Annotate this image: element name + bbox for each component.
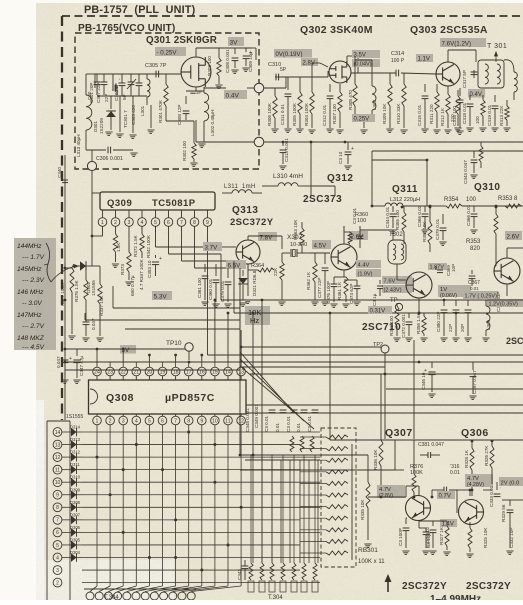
wire Q302 drain bbox=[347, 56, 396, 73]
wire pin8 route bbox=[195, 226, 241, 268]
capacitor C348 0.047 bbox=[56, 349, 69, 383]
Q306 transistor bbox=[459, 500, 484, 525]
wire v262 bbox=[254, 299, 263, 460]
capacitor C308 12P bbox=[177, 96, 189, 125]
IC Q308 top pin 14 bbox=[224, 367, 233, 376]
matrix junction dots bbox=[96, 431, 243, 572]
resistor R364 bbox=[248, 263, 274, 272]
wire v414 bbox=[413, 340, 415, 439]
connector pin 2 bbox=[53, 578, 62, 587]
bottom connector pin 5 bbox=[123, 592, 131, 600]
PLL unit dashed border top bbox=[62, 15, 523, 17]
inductor L311 bbox=[222, 190, 262, 193]
resistor R363 10K bbox=[293, 219, 304, 253]
IC Q308 bottom pin 12 bbox=[237, 416, 246, 425]
bottom connector pin 2 bbox=[95, 592, 103, 600]
IC Q308 top pin 22 bbox=[119, 367, 128, 376]
resistor R374 under pin2 bbox=[112, 226, 121, 267]
capacitor C308b bbox=[225, 48, 239, 73]
wire 2SC710 emitter bbox=[418, 298, 421, 314]
connector pin 5 bbox=[53, 541, 62, 550]
label 4KB 316 0.01 bbox=[450, 464, 460, 476]
capacitor C311 0.01 bbox=[280, 77, 292, 132]
ecap C309 10u bbox=[242, 48, 253, 72]
label 2SC372Y Q313 bbox=[230, 217, 274, 228]
wire corner x372 bbox=[371, 151, 374, 207]
bottom connector pin 11 bbox=[178, 592, 186, 600]
wire Q313 collector bbox=[248, 236, 282, 249]
voltage 6.5V bbox=[226, 260, 246, 270]
Q301 transistor bbox=[181, 57, 211, 87]
wire node1 to Q302 bbox=[264, 77, 286, 88]
wire tc col bbox=[120, 96, 151, 133]
voltage 2.6V right bbox=[505, 231, 522, 241]
capacitor C312 0.01 bbox=[322, 84, 334, 132]
capacitor C365 bbox=[487, 284, 523, 312]
wire v214 bbox=[214, 300, 216, 362]
capacitor C344 0.01 bbox=[385, 206, 397, 233]
voltage 7.6V(2.43V) bbox=[382, 276, 412, 294]
capacitor C305 7P bbox=[145, 63, 167, 77]
wire source to node bbox=[204, 87, 255, 89]
voltage 0.25V bbox=[352, 114, 375, 123]
label 2SC fragment bbox=[506, 336, 523, 346]
wire v253 bbox=[252, 312, 255, 460]
wire Q312 collector up bbox=[343, 226, 345, 244]
bus wire y313 bbox=[234, 261, 523, 313]
transformer T302 bbox=[360, 230, 406, 264]
voltage 2.6V a bbox=[349, 231, 368, 241]
ecap C353 10 bbox=[147, 255, 162, 278]
connector pin 11 bbox=[53, 465, 62, 474]
resistor R328 1K bbox=[464, 441, 474, 491]
IC Q309 pin 4 bbox=[138, 218, 147, 227]
wire R328 join bbox=[460, 490, 472, 496]
wire Q301 gate bbox=[180, 72, 181, 74]
capacitor C367 0.01 bbox=[468, 270, 480, 291]
resistor R337 10K bbox=[96, 266, 104, 341]
RB301 right bus bbox=[351, 444, 353, 560]
bottom resistor row bbox=[248, 455, 318, 592]
voltage 7.6V(1.2V) bbox=[440, 38, 486, 48]
label Q303 2SC535A bbox=[410, 24, 488, 36]
label L311 1mH bbox=[224, 184, 256, 190]
matrix column resistors bbox=[290, 436, 314, 452]
bottom connector pin 10 bbox=[169, 592, 177, 600]
resistor R356 1.5K bbox=[416, 311, 428, 341]
connector pin 12 bbox=[53, 453, 62, 462]
label Q301 2SK19GR bbox=[146, 35, 217, 46]
capacitor C343 bbox=[237, 560, 248, 580]
capacitor C344 0.047 bbox=[82, 318, 96, 341]
resistor R372 1.5K bbox=[133, 226, 144, 258]
wire out right bbox=[501, 500, 523, 522]
resistor R303 100 bbox=[207, 48, 221, 84]
resistor R335 10K bbox=[330, 455, 372, 547]
voltage 1.7V(0.25V) bbox=[463, 291, 498, 300]
bus wire y460 bbox=[245, 459, 320, 461]
capacitor C376 bbox=[317, 253, 329, 305]
IC Q308 bottom pin 9 bbox=[198, 416, 207, 425]
bus wire y362 bbox=[65, 361, 523, 363]
bus wire y370 bbox=[65, 369, 240, 371]
bottom connector pin 12 bbox=[187, 592, 195, 600]
TP test point bbox=[390, 298, 403, 311]
junction circle VCO bottom bbox=[87, 150, 96, 171]
label TP10 bbox=[166, 340, 182, 347]
label Q313 bbox=[232, 205, 258, 216]
wire Q313 base bbox=[222, 246, 236, 248]
wire Q303 collector bbox=[448, 50, 476, 62]
wire Q310 collector bbox=[507, 248, 523, 258]
inductor L301 bbox=[140, 74, 150, 116]
resistor R326 27K bbox=[484, 441, 494, 480]
IC Q308 top pin 15 bbox=[211, 367, 220, 376]
capacitor row matrix right bbox=[245, 408, 318, 432]
wire X307 out bbox=[310, 252, 330, 254]
bus wire y329 bbox=[125, 300, 240, 329]
IC Q308 bottom pin 2 bbox=[106, 416, 115, 425]
IC Q308 top pin 20 bbox=[145, 367, 154, 376]
resistor R311 220 bbox=[429, 84, 441, 133]
capacitor C378 bbox=[372, 280, 383, 306]
wire v175 bbox=[174, 354, 177, 362]
connector pin 13 bbox=[53, 440, 62, 449]
wire supply 3V bbox=[65, 348, 185, 350]
diag bus 1 bbox=[240, 352, 294, 413]
IC Q308 top pin 23 bbox=[106, 367, 115, 376]
label Q302 3SK40M bbox=[300, 24, 373, 36]
frequency table text bbox=[17, 243, 45, 351]
capacitor C307 22P bbox=[96, 74, 107, 103]
inductor L310 bbox=[262, 183, 312, 186]
transformer T301 bbox=[478, 52, 504, 88]
wire g2 bias bbox=[312, 63, 328, 67]
label Q307 bbox=[385, 427, 413, 439]
bus wire y389 bbox=[386, 388, 523, 390]
bus wire y455 bbox=[240, 347, 330, 455]
resistor R358 100 bbox=[389, 303, 401, 341]
label 2SC710 bbox=[362, 322, 401, 333]
voltage 0V(0.19V) bbox=[274, 49, 312, 58]
voltage 1.87V bbox=[428, 263, 447, 271]
bus wire y367 bbox=[240, 366, 385, 368]
node VCO out 1 bbox=[254, 83, 264, 93]
label 2SC372Y pair bbox=[402, 581, 511, 592]
voltage 2.8V bbox=[301, 58, 318, 67]
wire C310 to gate bbox=[281, 71, 328, 77]
IC Q308 label bbox=[106, 392, 215, 404]
bus wire y405 bbox=[246, 404, 523, 406]
connector box bbox=[47, 421, 70, 600]
wire v241 bbox=[240, 330, 242, 362]
ground R303 bbox=[215, 85, 222, 88]
wire gate rail Q301 bbox=[95, 74, 180, 88]
resistor R376 100K bbox=[395, 440, 423, 498]
label 1-4.99MHz bbox=[430, 594, 481, 605]
capacitor C316b bbox=[431, 487, 460, 499]
capacitor C310 5P bbox=[268, 62, 287, 80]
resistor R308 470 bbox=[348, 56, 357, 118]
resistor R301 470K bbox=[158, 74, 168, 123]
IC Q308 bottom pin 6 bbox=[158, 416, 167, 425]
inductor L312 bbox=[372, 203, 430, 206]
capacitor C303 bbox=[131, 74, 142, 125]
wire v162 bbox=[162, 361, 164, 363]
wire Q310 base bbox=[495, 244, 496, 266]
wire above bottom connector bbox=[84, 588, 196, 590]
up arrow bbox=[385, 574, 392, 592]
Q302 transistor bbox=[329, 61, 351, 83]
bus wire y374 bbox=[250, 373, 523, 375]
IC Q309 pin 9 bbox=[203, 218, 212, 227]
connector pin 8 bbox=[53, 503, 62, 512]
left bus wire bbox=[64, 155, 66, 420]
wire D302 out bbox=[92, 265, 100, 267]
wire top to C314 bbox=[355, 59, 372, 61]
wire v149 bbox=[148, 354, 151, 362]
inductor L303 bbox=[372, 60, 377, 118]
capacitor C380 22P bbox=[436, 300, 448, 341]
voltage 3V mid bbox=[120, 345, 136, 354]
IC Q308 pin stubs bbox=[97, 376, 241, 416]
inductor L309 bbox=[482, 300, 491, 341]
resistor R310 33K bbox=[396, 73, 408, 133]
voltage 0.7V bbox=[437, 491, 455, 500]
capacitor C332 bbox=[506, 500, 514, 554]
ground g1 bbox=[105, 132, 112, 135]
bus wire y347 bbox=[240, 268, 381, 347]
ground g3 bbox=[129, 135, 136, 138]
resistor R313 220 bbox=[450, 90, 462, 131]
resistor R375 1.5K bbox=[74, 266, 88, 318]
wire Q311 top rail bbox=[312, 186, 335, 196]
Q311 transistor 2SC710 bbox=[406, 272, 432, 298]
wire Q306 collector up bbox=[469, 489, 472, 496]
wire bus to Q307 region bbox=[240, 469, 395, 471]
wire v201 bbox=[200, 354, 203, 362]
capacitor C340 bbox=[57, 167, 68, 183]
frequency table box bbox=[14, 238, 56, 350]
Q303 transistor bbox=[436, 62, 460, 86]
wire R308-L303 bbox=[355, 60, 372, 133]
RB301 dashed box bbox=[321, 428, 356, 567]
capacitor C369 10P bbox=[436, 264, 456, 276]
voltage 1.4V bbox=[440, 519, 457, 528]
wire Q306 base bbox=[449, 490, 457, 513]
resistor R355 100 bbox=[395, 206, 406, 244]
ground rail VCO bbox=[97, 95, 147, 97]
crystal X301 bbox=[113, 74, 117, 95]
capacitor C382 100P bbox=[398, 518, 410, 554]
IC Q308 top pin 16 bbox=[198, 367, 207, 376]
capacitor C318 0.01 bbox=[462, 95, 474, 131]
cap 3P bbox=[190, 90, 201, 95]
wire pin9 route bbox=[207, 226, 209, 276]
wire T302 to Q311 base bbox=[397, 264, 406, 280]
voltage 3V top bbox=[228, 37, 244, 47]
voltage 0.31V bbox=[368, 306, 392, 315]
wire source bbox=[165, 117, 167, 119]
label 22K bbox=[273, 253, 286, 305]
IC Q308 bottom pin 11 bbox=[224, 416, 233, 425]
resistor R307 100 bbox=[332, 84, 344, 133]
label Q312 bbox=[327, 173, 353, 184]
matrix vertical wires bbox=[97, 425, 241, 586]
resistor R304 100K bbox=[304, 63, 316, 133]
wire v97 bbox=[96, 348, 99, 367]
wire x345 drop bbox=[310, 141, 313, 196]
resistor R306 100K bbox=[267, 88, 279, 132]
capacitor C333 0.01 bbox=[483, 480, 501, 507]
bottom connector pin 8 bbox=[150, 592, 158, 600]
diode D302 1S1555 bbox=[72, 261, 96, 296]
inductor L302 0.48uH bbox=[198, 87, 215, 147]
capacitor C366 0.01 bbox=[417, 205, 429, 233]
supply rail y441 bbox=[330, 440, 523, 470]
capacitor C334 0.02 bbox=[425, 521, 437, 554]
bus wire y300 bbox=[221, 254, 523, 300]
diode D321 RD6.8 bbox=[238, 270, 257, 306]
bottom connector pin 3 bbox=[104, 592, 112, 600]
inductor L313 40uH bbox=[76, 95, 92, 157]
capacitor C372 0.001 bbox=[401, 313, 413, 341]
resistor R354 100 bbox=[430, 197, 523, 208]
wire branch x88 bbox=[91, 171, 94, 266]
label T304 right bbox=[268, 595, 283, 601]
voltage 0.4V bbox=[224, 90, 247, 100]
wire C314 to Q303 bbox=[401, 73, 436, 74]
matrix extra verticals bbox=[253, 460, 318, 563]
TP10 circle bbox=[185, 343, 193, 351]
transformer T301 secondary bbox=[504, 60, 517, 100]
bottom connector pin 9 bbox=[160, 592, 168, 600]
label 10KHz bbox=[245, 306, 270, 325]
wire y160 branch bbox=[372, 159, 428, 206]
voltage 4.7V(2.8V) bbox=[377, 485, 405, 499]
PLL unit dashed border left bbox=[61, 16, 63, 420]
bottom connector pin 1 bbox=[86, 592, 94, 600]
capacitor C366b 0.01 bbox=[466, 204, 478, 233]
IC Q308 top pin 18 bbox=[171, 367, 180, 376]
wire Q307 collector top bbox=[406, 486, 419, 497]
label L312 220uH bbox=[390, 197, 420, 203]
IC Q308 bottom pin 3 bbox=[119, 416, 128, 425]
matrix fan wires bbox=[90, 586, 241, 592]
capacitor C313 0.001 bbox=[279, 138, 289, 170]
label Q310 bbox=[474, 182, 500, 193]
diode D301 1S2209 bbox=[93, 111, 116, 134]
wire Q301 source bbox=[186, 87, 204, 91]
resistor R360 bbox=[344, 226, 352, 244]
wire node2 left bbox=[196, 120, 254, 142]
label R360 100 bbox=[355, 212, 368, 224]
bottom connector pin 6 bbox=[132, 592, 140, 600]
title PB-1765 (VCO UNIT) bbox=[78, 23, 175, 34]
label T301 bbox=[487, 43, 507, 50]
resistor R302 100 bbox=[166, 118, 198, 166]
IC Q309 pin 7 bbox=[177, 218, 186, 227]
IC Q308 bottom pin 8 bbox=[184, 416, 193, 425]
label R347 bbox=[130, 258, 144, 296]
IC Q309 pin 6 bbox=[164, 218, 173, 227]
wire mid rail bbox=[345, 141, 523, 143]
voltage 5.3V bbox=[152, 291, 172, 301]
resistor R336 10K bbox=[373, 374, 383, 497]
TP2 test point bbox=[373, 342, 389, 439]
capacitor C375 0.01 bbox=[220, 268, 232, 307]
label T304 left bbox=[104, 595, 119, 601]
resistor R314 100 bbox=[475, 95, 487, 131]
IC Q309 pin 8 bbox=[190, 218, 199, 227]
wire Q307 base bbox=[368, 496, 406, 499]
matrix diodes D314-D304 bbox=[62, 425, 82, 562]
voltage -0.25V bbox=[155, 47, 186, 57]
ground g4 bbox=[147, 130, 154, 133]
wire v330 bbox=[329, 312, 332, 440]
title PB-1757 (PLL UNIT) bbox=[84, 4, 196, 16]
capacitor C317 5P bbox=[462, 70, 477, 88]
resistor R373 under pin3 bbox=[120, 226, 133, 285]
capacitor C379 bbox=[435, 214, 447, 245]
resistor R361 bbox=[306, 253, 319, 305]
voltage 1.1V bbox=[416, 54, 433, 63]
wire pin4 route bbox=[141, 226, 143, 230]
trimmer TC301 bbox=[123, 74, 136, 128]
bottom connector pin 7 bbox=[141, 592, 149, 600]
connector pin 14 bbox=[53, 428, 62, 437]
capacitor C361 100 bbox=[197, 264, 209, 305]
extra vco labels bbox=[87, 77, 127, 102]
wire v123 bbox=[122, 348, 125, 362]
IC Q309 pin stubs bbox=[103, 210, 208, 218]
resistor R305 100K bbox=[292, 77, 304, 132]
label 2SC373 bbox=[303, 194, 342, 205]
connector pin 10 bbox=[53, 478, 62, 487]
wire to edge node bbox=[252, 48, 256, 60]
op point wire bbox=[171, 73, 180, 75]
IC Q309 pin 5 bbox=[151, 218, 160, 227]
bus wire y413 bbox=[246, 412, 523, 414]
IC Q308 top pin 24 bbox=[93, 367, 102, 376]
capacitor C319 bbox=[487, 95, 499, 131]
wire pin1 down bbox=[92, 226, 103, 236]
voltage 3.5V(0.04V) bbox=[352, 50, 380, 68]
IC Q308 notch bbox=[90, 389, 98, 404]
Q310 transistor bbox=[494, 258, 520, 284]
wire TP10 down bbox=[188, 351, 191, 363]
wire rail y151 bbox=[372, 150, 523, 152]
diag bus 2 bbox=[240, 359, 304, 421]
capacitor C306 0.001 bbox=[86, 130, 138, 162]
capacitor C343 0.047 bbox=[463, 151, 478, 184]
capacitor C302 5P bbox=[114, 74, 125, 101]
wires into Q308 top pins bbox=[110, 362, 241, 367]
Q307 transistor bbox=[406, 496, 431, 521]
wire Q309 top left bbox=[92, 192, 100, 194]
resistor R352 bbox=[479, 142, 483, 168]
label C381 0.047 bbox=[418, 442, 444, 458]
matrix horizontal wires bbox=[82, 432, 320, 583]
voltage 7.8V right bbox=[258, 232, 277, 242]
connector pin 6 bbox=[53, 528, 62, 537]
resistor R312 bbox=[440, 86, 452, 133]
IC Q308 top pin 19 bbox=[158, 367, 167, 376]
voltage 0.4V b bbox=[468, 89, 485, 98]
resistor R357 10K bbox=[422, 205, 432, 252]
IC Q308 box bbox=[89, 380, 247, 414]
label Q311 bbox=[392, 184, 418, 195]
